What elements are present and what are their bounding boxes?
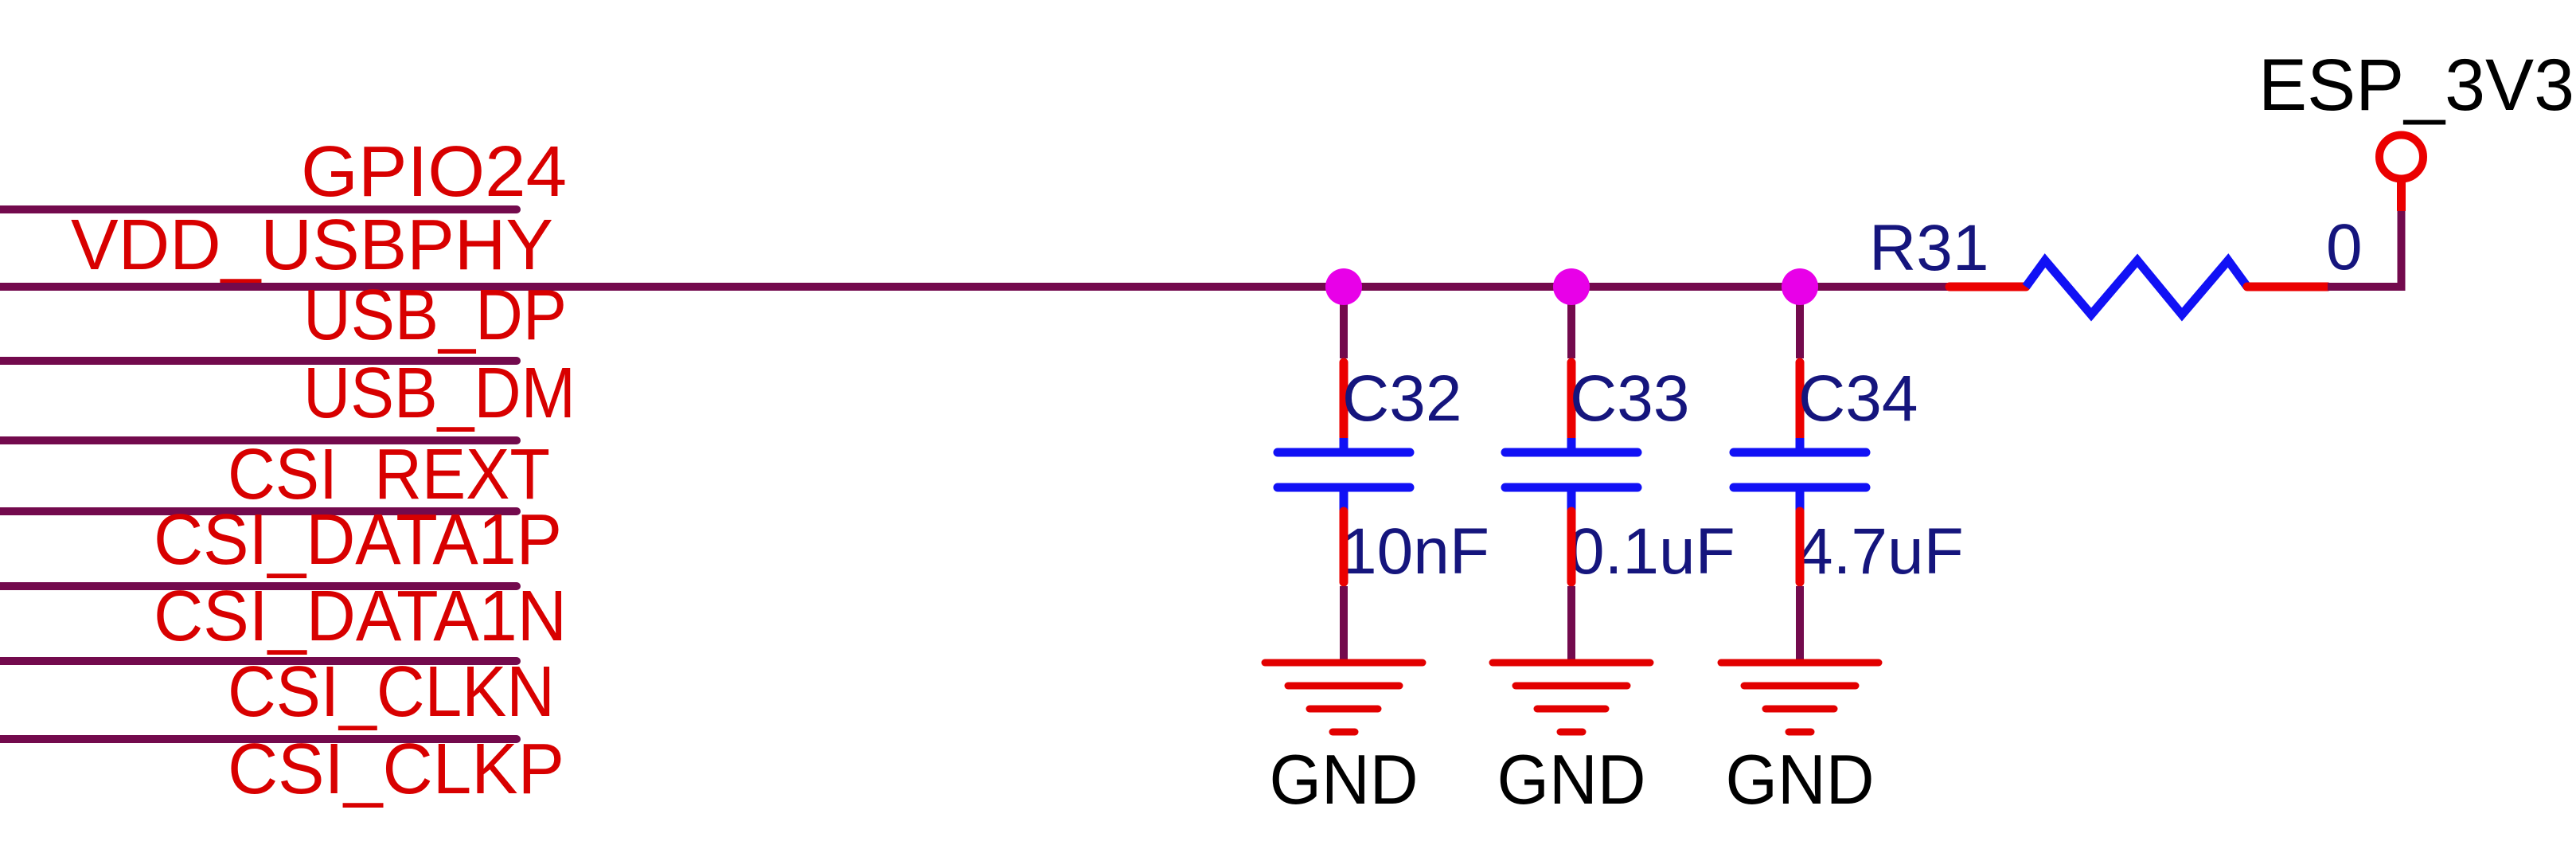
svg-text:GND: GND: [1270, 740, 1419, 819]
net label VDD_USBPHY: [71, 205, 553, 285]
svg-text:GND: GND: [1726, 740, 1875, 819]
capacitor C34 pin 2: [1796, 511, 1805, 582]
svg-text:ESP_3V3: ESP_3V3: [2258, 45, 2574, 126]
capacitor C34 pin 1: [1796, 362, 1805, 437]
wire CSI_DATA1P: [0, 582, 517, 590]
capacitor C34 reference designator: [1798, 362, 1918, 435]
wire CSI_DATA1N: [0, 657, 517, 665]
junction dot node C32: [1325, 268, 1362, 305]
ground net name GND (C33): [1497, 740, 1646, 819]
svg-text:10nF: 10nF: [1341, 515, 1489, 588]
power symbol pin: [2397, 180, 2406, 211]
capacitor C32 value 10nF: [1341, 515, 1489, 588]
resistor R31 pin 2: [2247, 283, 2328, 291]
svg-text:4.7uF: 4.7uF: [1797, 515, 1964, 588]
ground symbol GND (C33): [1493, 663, 1650, 732]
net label CSI_CLKP: [228, 730, 564, 809]
wire C34 to ground: [1796, 586, 1804, 661]
junction dot node C34: [1782, 268, 1818, 305]
capacitor C33 reference designator: [1570, 362, 1689, 435]
wire CSI_CLKN: [0, 735, 517, 743]
power symbol ESP_3V3 circle: [2379, 135, 2423, 179]
capacitor C32 reference designator: [1342, 362, 1462, 435]
svg-text:USB_DM: USB_DM: [303, 354, 576, 433]
ground net name GND (C32): [1270, 740, 1419, 819]
resistor R31 pin 1: [1950, 283, 2026, 291]
net label CSI_CLKN: [228, 652, 555, 732]
wire VDD_USBPHY main net: [0, 283, 1949, 291]
capacitor C34: [1734, 438, 1866, 511]
svg-text:C33: C33: [1570, 362, 1689, 435]
svg-text:GPIO24: GPIO24: [301, 132, 567, 212]
junction dot node C33: [1553, 268, 1590, 305]
wire C33 to ground: [1567, 586, 1575, 661]
capacitor C33 pin 1: [1567, 362, 1576, 437]
net label GPIO24: [301, 132, 567, 212]
capacitor C33 pin 2: [1567, 511, 1576, 582]
ground symbol GND (C32): [1265, 663, 1423, 732]
capacitor C32 pin 1: [1340, 362, 1348, 437]
svg-text:GND: GND: [1497, 740, 1646, 819]
net label USB_DM: [303, 354, 576, 433]
capacitor C33: [1505, 438, 1637, 511]
wire GPIO24: [0, 205, 517, 213]
wire C32 to ground: [1340, 586, 1348, 661]
net label CSI_DATA1P: [154, 500, 562, 580]
net label CSI_REXT: [228, 435, 550, 514]
wire R31 to ESP_3V3: [2328, 211, 2402, 287]
capacitor C32 pin 2: [1340, 511, 1348, 582]
svg-text:CSI_CLKN: CSI_CLKN: [228, 652, 555, 732]
wire C32 top stub: [1340, 287, 1348, 358]
svg-text:USB_DP: USB_DP: [303, 276, 567, 355]
resistor R31: [2026, 260, 2247, 315]
svg-text:CSI_CLKP: CSI_CLKP: [228, 730, 564, 809]
wire C34 top stub: [1796, 287, 1804, 358]
wire CSI_REXT: [0, 507, 517, 515]
svg-text:VDD_USBPHY: VDD_USBPHY: [71, 205, 553, 285]
capacitor C34 value 4.7uF: [1797, 515, 1964, 588]
resistor R31 value 0: [2326, 211, 2363, 284]
resistor R1 reference designator R31: [1869, 212, 1989, 284]
wire USB_DP: [0, 357, 517, 365]
svg-text:CSI_DATA1N: CSI_DATA1N: [154, 577, 567, 656]
ground net name GND (C34): [1726, 740, 1875, 819]
net label CSI_DATA1N: [154, 577, 567, 656]
svg-text:0.1uF: 0.1uF: [1568, 515, 1735, 588]
power net name ESP_3V3: [2258, 45, 2574, 126]
capacitor C33 value 0.1uF: [1568, 515, 1735, 588]
svg-text:C32: C32: [1342, 362, 1462, 435]
svg-text:R31: R31: [1869, 212, 1989, 284]
svg-text:CSI_DATA1P: CSI_DATA1P: [154, 500, 562, 580]
svg-text:C34: C34: [1798, 362, 1918, 435]
ground symbol GND (C34): [1721, 663, 1879, 732]
wire C33 top stub: [1567, 287, 1575, 358]
capacitor C32: [1278, 438, 1410, 511]
svg-text:0: 0: [2326, 211, 2363, 284]
net label USB_DP: [303, 276, 567, 355]
wire USB_DM: [0, 436, 517, 444]
